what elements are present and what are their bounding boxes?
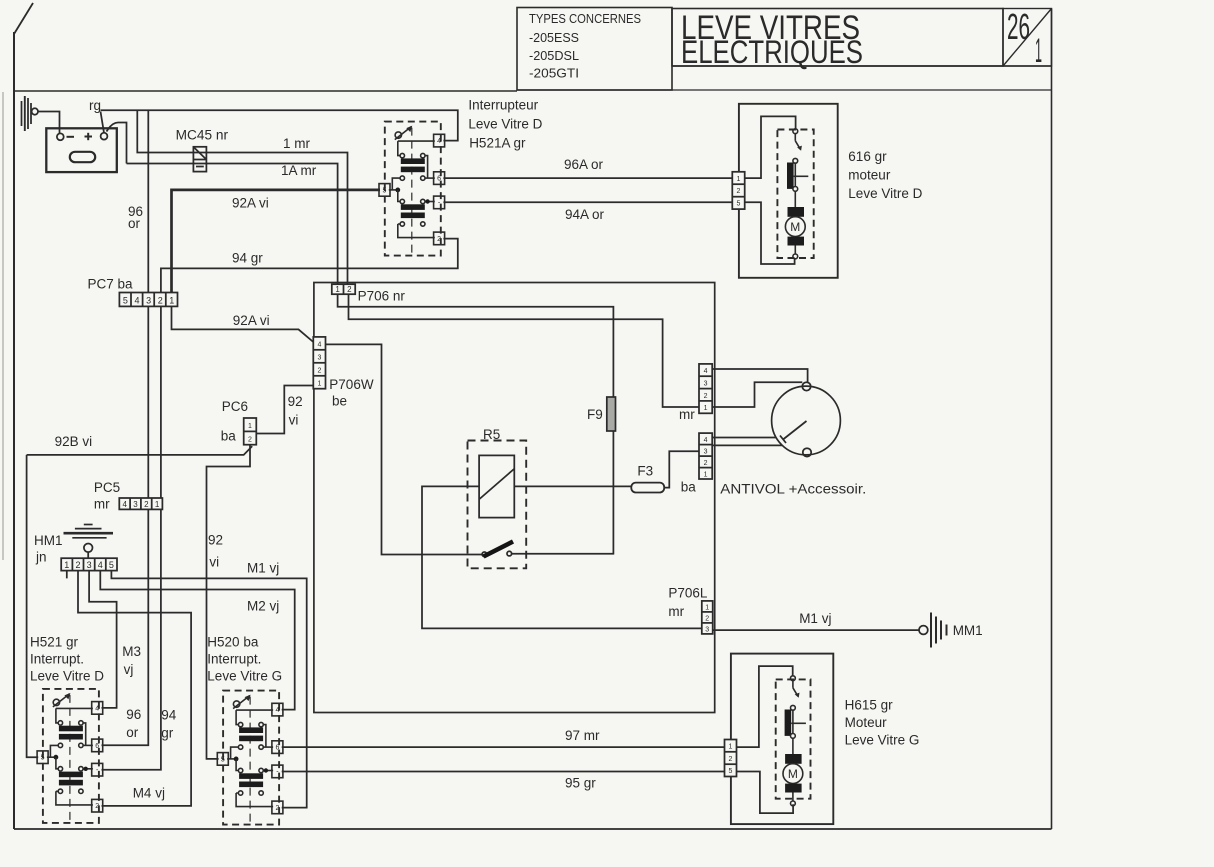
wire 92A vi lower : PC7 pin1 down then right into P706W pin 4 — [172, 306, 314, 342]
title block: main title box — [672, 9, 1052, 67]
svg-text:2: 2 — [737, 188, 741, 195]
svg-text:1A mr: 1A mr — [281, 163, 317, 178]
svg-text:H615 gr: H615 gr — [845, 698, 894, 713]
svg-text:2: 2 — [347, 285, 352, 294]
svg-text:Leve Vitre D: Leve Vitre D — [30, 669, 104, 684]
connector P706L (1 2 3) — [702, 601, 713, 634]
svg-text:2: 2 — [705, 615, 709, 622]
svg-text:MC45 nr: MC45 nr — [176, 128, 229, 143]
motor H615 wiring bottom route — [737, 772, 794, 814]
svg-text:HM1: HM1 — [34, 533, 63, 548]
svg-text:97 mr: 97 mr — [565, 728, 600, 743]
wires antivol lower connector to switch body — [712, 438, 782, 446]
wire 96A or : H521A pin 6 to motor connector — [443, 177, 732, 179]
wire 92 vi : PC6 pin2 down to H520 pin 5 — [207, 445, 251, 759]
svg-text:3: 3 — [704, 449, 708, 456]
svg-text:3: 3 — [317, 354, 321, 361]
wire 97 mr : H520 pin6 to motor H615 — [282, 746, 725, 748]
connector P706W (4 3 2 1) — [313, 337, 325, 389]
svg-text:2: 2 — [248, 436, 252, 443]
ground MM1 — [919, 613, 947, 648]
svg-text:mr: mr — [668, 604, 684, 619]
svg-text:92A vi: 92A vi — [233, 313, 270, 328]
svg-text:Leve Vitre G: Leve Vitre G — [845, 733, 920, 748]
svg-text:Leve Vitre D: Leve Vitre D — [848, 186, 922, 201]
wire P706W pin4 to relay contact feed — [326, 344, 483, 554]
svg-text:4: 4 — [704, 368, 708, 375]
wire antivol pin1 to ignition switch top left — [712, 382, 802, 407]
wire coil left to P706L pin 3 — [422, 486, 702, 628]
svg-text:1: 1 — [335, 285, 340, 294]
motor H615 connector (1 2 3) — [725, 740, 737, 777]
motor 616 wiring bottom route — [745, 202, 795, 264]
svg-text:5: 5 — [729, 768, 733, 775]
svg-text:PC6: PC6 — [222, 399, 248, 414]
svg-text:92: 92 — [208, 533, 223, 548]
svg-text:3: 3 — [705, 626, 709, 633]
ground HM1 — [64, 525, 114, 559]
svg-text:be: be — [332, 394, 347, 409]
svg-text:2: 2 — [75, 560, 80, 570]
wire M1 vj : P706L to ground MM1 — [713, 629, 919, 631]
connector PC6 (1 2) — [244, 418, 257, 445]
title block: types box — [517, 8, 672, 91]
svg-text:H520 ba: H520 ba — [207, 635, 259, 650]
wire 92A vi : PC7 pin 1 to H521A pin 5 (thick) — [172, 190, 381, 293]
svg-text:94 gr: 94 gr — [232, 251, 263, 266]
svg-text:4: 4 — [317, 341, 321, 348]
wire 96 or : battery feed down through PC7-3 and PC5-2 to H521 pin 6 — [102, 110, 149, 745]
svg-text:616 gr: 616 gr — [848, 149, 887, 164]
svg-text:TYPES CONCERNES: TYPES CONCERNES — [529, 11, 641, 26]
wire battery + to 1A mr — [107, 123, 127, 164]
svg-text:PC7 ba: PC7 ba — [88, 277, 134, 292]
switch H520 — [217, 691, 283, 825]
fuse F3 — [631, 483, 664, 493]
svg-text:1: 1 — [737, 176, 741, 183]
svg-text:92B vi: 92B vi — [55, 434, 93, 449]
svg-text:ANTIVOL +Accessoir.: ANTIVOL +Accessoir. — [720, 482, 866, 497]
svg-text:vj: vj — [124, 662, 134, 677]
svg-text:92A vi: 92A vi — [232, 196, 269, 211]
relay R5 contact — [482, 542, 614, 557]
svg-text:mr: mr — [94, 497, 110, 512]
wire M1 vj : HM1 pin5 to H520 pin 2 — [67, 571, 307, 808]
chassis ground top-left — [22, 96, 39, 131]
svg-text:94: 94 — [161, 708, 177, 723]
motor 616 internal chain — [785, 129, 808, 259]
motor 616 box — [739, 104, 838, 278]
node rg : wire battery + up to feed line — [101, 112, 105, 133]
svg-text:-205ESS: -205ESS — [529, 30, 579, 45]
wire M3 vj : HM1 pin3 to H521 pin 4 — [89, 571, 117, 708]
wire 1 mr : tee to MC45 and P706 pin 2 — [137, 110, 347, 284]
svg-text:H521 gr: H521 gr — [30, 635, 79, 650]
wire ground to battery minus — [38, 112, 60, 134]
svg-text:M1 vj: M1 vj — [247, 561, 279, 576]
svg-text:vi: vi — [289, 413, 299, 428]
connector HM1 (1 2 3 4 5) — [61, 558, 117, 570]
battery — [46, 128, 117, 172]
title block: sheet number box — [1003, 9, 1052, 67]
svg-text:4: 4 — [122, 500, 127, 509]
svg-text:3: 3 — [704, 381, 708, 388]
svg-text:P706L: P706L — [668, 586, 708, 601]
connector antivol upper (mr) — [699, 364, 712, 413]
svg-text:1: 1 — [64, 560, 69, 570]
svg-text:mr: mr — [679, 407, 695, 422]
svg-text:P706W: P706W — [329, 377, 374, 392]
svg-text:gr: gr — [161, 726, 174, 741]
svg-text:R5: R5 — [483, 427, 500, 442]
svg-text:1: 1 — [155, 500, 160, 509]
svg-text:96A or: 96A or — [564, 157, 604, 172]
svg-text:2: 2 — [144, 500, 149, 509]
title texts — [529, 6, 1042, 81]
motor 616 wiring top route — [745, 116, 796, 178]
wire F9 down to relay contact line — [612, 431, 614, 555]
svg-text:rg: rg — [89, 98, 101, 113]
svg-text:4: 4 — [704, 437, 708, 444]
wire P706 pin1 to fuse F9 — [338, 294, 614, 397]
svg-text:3: 3 — [133, 500, 138, 509]
svg-text:3: 3 — [146, 295, 151, 305]
svg-text:2: 2 — [704, 393, 708, 400]
svg-text:95 gr: 95 gr — [565, 776, 596, 791]
svg-text:Interrupt.: Interrupt. — [207, 652, 261, 667]
svg-text:MM1: MM1 — [953, 623, 983, 638]
svg-text:1: 1 — [704, 405, 708, 412]
svg-text:1: 1 — [729, 743, 733, 750]
svg-text:1: 1 — [1035, 32, 1042, 70]
motor H615 internal chain — [783, 676, 806, 806]
svg-text:-205DSL: -205DSL — [529, 48, 579, 63]
svg-text:1: 1 — [705, 604, 709, 611]
wire M2 vj : HM1 pin4 to H520 pin 4 — [100, 571, 294, 710]
svg-text:5: 5 — [123, 295, 128, 305]
svg-text:1: 1 — [169, 295, 174, 305]
switch H521 — [37, 689, 103, 823]
svg-text:M3: M3 — [122, 644, 141, 659]
svg-text:Moteur: Moteur — [845, 715, 888, 730]
wire 1A mr : through MC45 to P706 pin 1 — [127, 164, 338, 285]
svg-text:moteur: moteur — [848, 168, 891, 183]
svg-text:-205GTI: -205GTI — [529, 66, 579, 81]
svg-text:92: 92 — [288, 394, 303, 409]
svg-text:or: or — [128, 216, 141, 231]
wire 92B vi : left border area to PC6 and H521 pin 5 — [27, 446, 253, 455]
svg-text:4: 4 — [98, 560, 103, 570]
wire 94 gr : from H521A pin 2 down-left through PC7-2 and PC5-1 to H521 pin 3 — [102, 239, 458, 770]
svg-text:2: 2 — [158, 295, 163, 305]
svg-text:1: 1 — [248, 423, 252, 430]
switch H521A — [379, 122, 445, 256]
svg-text:H521A gr: H521A gr — [469, 136, 526, 151]
connector PC7 (5 4 3 2 1) — [119, 293, 177, 307]
wire F3 to antivol connector pin 2 — [664, 451, 699, 487]
svg-text:5: 5 — [737, 201, 741, 208]
wire mr : P706 pin2 to antivol connector pin 1 — [349, 294, 700, 407]
svg-text:M4 vj: M4 vj — [133, 786, 165, 801]
svg-text:2: 2 — [704, 460, 708, 467]
svg-text:96: 96 — [126, 707, 141, 722]
relay R5 coil — [479, 455, 514, 517]
svg-text:ba: ba — [681, 480, 697, 495]
wire PC6 to P706W pin 1 (92 vi upper) — [256, 386, 313, 434]
connector P706 (1 2) — [332, 284, 355, 294]
motor H615 wiring top route — [737, 666, 793, 747]
svg-text:2: 2 — [729, 756, 733, 763]
connector antivol lower (ba) — [699, 433, 712, 479]
svg-text:1: 1 — [704, 472, 708, 479]
harness box (middle) — [314, 283, 715, 713]
wire 94A or : H521A pin 3 to motor connector — [443, 201, 732, 203]
svg-text:5: 5 — [109, 560, 114, 570]
svg-text:P706 nr: P706 nr — [358, 289, 406, 304]
svg-text:or: or — [126, 725, 139, 740]
wire 95 gr : H520 pin3 to motor H615 — [282, 771, 725, 773]
svg-text:1: 1 — [317, 380, 321, 387]
fuse F9 — [607, 397, 616, 431]
svg-text:Leve Vitre D: Leve Vitre D — [468, 117, 542, 132]
svg-text:Interrupt.: Interrupt. — [30, 652, 84, 667]
svg-text:Interrupteur: Interrupteur — [468, 98, 538, 113]
svg-text:2: 2 — [317, 367, 321, 374]
svg-text:ba: ba — [221, 429, 237, 444]
ignition switch ANTIVOL (circle) — [772, 382, 841, 456]
svg-text:M1 vj: M1 vj — [799, 611, 831, 626]
svg-text:F3: F3 — [637, 464, 653, 479]
relay R5 dashed box — [468, 441, 527, 569]
svg-text:94A or: 94A or — [565, 207, 605, 222]
svg-text:1 mr: 1 mr — [283, 136, 311, 151]
svg-text:Leve Vitre G: Leve Vitre G — [207, 669, 282, 684]
svg-text:4: 4 — [134, 295, 139, 305]
svg-text:PC5: PC5 — [94, 480, 120, 495]
svg-text:jn: jn — [35, 550, 47, 565]
svg-text:3: 3 — [87, 560, 92, 570]
motor H615 box — [731, 654, 833, 825]
wire antivol pin4 to ignition switch top — [712, 369, 807, 382]
wire coil to F3 — [514, 485, 631, 487]
svg-text:F9: F9 — [587, 407, 603, 422]
wire M4 vj : HM1 pin2 to H521 pin 2 — [78, 571, 191, 806]
svg-text:ELECTRIQUES: ELECTRIQUES — [681, 34, 863, 70]
connector PC5 (4 3 2 1) — [119, 498, 162, 509]
fuse MC45 — [193, 147, 206, 172]
svg-text:26: 26 — [1007, 6, 1030, 47]
svg-text:M2 vj: M2 vj — [247, 599, 279, 614]
motor 616 connector (1 2 3) — [732, 172, 744, 209]
wire feed (rg) to switch H521A pin 4 — [101, 110, 458, 140]
svg-text:vi: vi — [209, 555, 219, 570]
